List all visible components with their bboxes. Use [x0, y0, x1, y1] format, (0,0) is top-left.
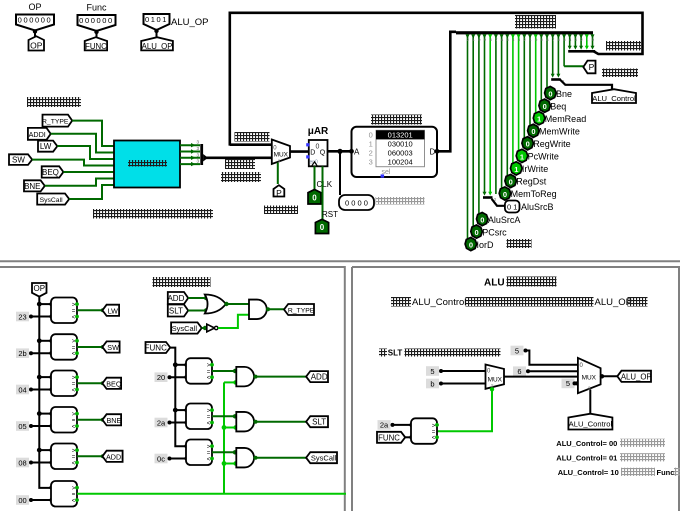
tunnel LW (decode output)	[102, 305, 119, 316]
splitter AluSrcB (2 bits)	[483, 192, 505, 206]
svg-text:0: 0	[475, 228, 479, 237]
wire AND to tunnel R_TYPE	[266, 307, 287, 311]
svg-text:FUNC: FUNC	[378, 433, 400, 442]
svg-text:6: 6	[517, 367, 521, 376]
wire const b to MUX1 input1	[441, 383, 486, 385]
wire CLK to register clock	[314, 166, 316, 189]
probe MemWrite value 0	[528, 124, 580, 137]
probe AluSrcB value 01	[505, 201, 554, 213]
svg-text:μAR: μAR	[308, 126, 329, 137]
FUNC bus wire	[170, 348, 186, 447]
svg-text:0: 0	[316, 143, 320, 150]
mux MUX1 (alu op pre-select)	[486, 365, 505, 390]
svg-text:ALU_Control= 00: ALU_Control= 00	[556, 439, 617, 448]
svg-text:ADD: ADD	[311, 373, 328, 382]
wire SW to box	[32, 160, 114, 166]
comparator FUNC==0c	[186, 440, 214, 466]
constant 2a (right panel)	[378, 420, 395, 430]
tunnel ALU_Control (top right)	[592, 89, 636, 103]
svg-text:2: 2	[369, 149, 373, 158]
tunnel ADD (input)	[167, 292, 188, 304]
svg-text:D: D	[430, 147, 436, 156]
comparator OP==05	[51, 407, 79, 433]
svg-text:LW: LW	[40, 142, 52, 151]
svg-text:=: =	[207, 451, 211, 457]
svg-text:100204: 100204	[388, 158, 413, 167]
svg-text:Bne: Bne	[556, 89, 572, 99]
wire R_TYPE to box	[72, 121, 114, 146]
microinstruction splitter fanout lines (23 bits)	[466, 34, 595, 239]
wire splitter to tunnel P	[564, 65, 583, 67]
tunnel BEQ (decode output)	[102, 378, 121, 389]
svg-text:0: 0	[509, 177, 513, 186]
comparator OP==04	[51, 371, 79, 397]
svg-text:=: =	[72, 418, 76, 424]
bottom-left panel border	[0, 267, 345, 511]
wire NOT to AND gate (bright)	[218, 315, 249, 328]
constant 2a (func)	[155, 418, 172, 428]
note ALU_Control=10	[558, 468, 680, 477]
wire bright branch to AND gate 2	[224, 425, 238, 429]
wire OR to AND gate	[224, 302, 249, 306]
svg-text:Beq: Beq	[550, 101, 566, 111]
svg-text:000000: 000000	[79, 16, 114, 25]
svg-text:IorD: IorD	[477, 240, 495, 250]
svg-text:<: <	[72, 424, 76, 430]
wire FUNC bus corner	[184, 444, 188, 448]
constant 5 (lower)	[562, 379, 579, 389]
svg-text:AluSrcA: AluSrcA	[488, 215, 521, 225]
wire BEQ to box	[63, 171, 114, 173]
svg-text:MUX: MUX	[274, 151, 289, 158]
svg-text:0 0 0 0: 0 0 0 0	[345, 199, 368, 208]
svg-text:0c: 0c	[157, 454, 165, 463]
svg-text:ALU_OP: ALU_OP	[595, 297, 633, 308]
svg-text:00: 00	[18, 496, 26, 505]
wire const 6 to MUX2 input1	[528, 370, 578, 372]
tunnel ALU_Control (bottom right)	[568, 414, 612, 430]
svg-text:SysCall: SysCall	[311, 454, 337, 463]
entry-address splitter spine	[200, 144, 203, 165]
comparator OP==2b	[51, 334, 79, 360]
comparator OP==00	[51, 481, 79, 507]
svg-text:ALU: ALU	[484, 277, 505, 288]
tunnel SLT (input)	[168, 305, 188, 317]
and-gate output SLT	[236, 412, 254, 432]
wire OP bus tap to comparator 3	[37, 375, 54, 380]
constant 5 (mux1)	[426, 366, 443, 376]
svg-text:R_TYPE: R_TYPE	[288, 308, 315, 315]
probe Bne value 0	[545, 87, 572, 100]
wire pin OP to tunnel OP	[34, 31, 36, 39]
svg-text:LW: LW	[108, 306, 118, 315]
svg-text:<: <	[72, 352, 76, 358]
note: default add except SLT	[379, 348, 501, 357]
and-gate output ADD	[236, 367, 254, 387]
svg-text:5: 5	[430, 367, 434, 376]
svg-text:SLT: SLT	[169, 307, 183, 316]
svg-text:<: <	[72, 315, 76, 321]
wire ADD to OR gate	[188, 296, 208, 300]
tunnel ALU_OP (north)	[141, 37, 173, 51]
tunnel LW	[38, 141, 57, 152]
svg-text:0: 0	[526, 140, 530, 149]
wire pin Func to tunnel FUNC	[96, 31, 98, 39]
wire SysCall to box	[69, 185, 114, 199]
tunnel FUNC (decode panel)	[145, 342, 171, 353]
svg-text:000000: 000000	[18, 16, 53, 25]
label RST	[322, 210, 338, 219]
svg-text:Func: Func	[86, 3, 107, 13]
label: panduan luoji (judge logic) left	[264, 206, 298, 215]
and-gate output SysCall	[236, 448, 254, 468]
svg-text:=: =	[72, 492, 76, 498]
tunnel ADDI (decode output)	[102, 451, 123, 462]
svg-text:BNE: BNE	[106, 416, 121, 425]
wire bright branch to AND gate 1	[224, 380, 238, 384]
comparator FUNC==20	[186, 358, 214, 384]
svg-text:SLT: SLT	[312, 418, 326, 427]
wire comparator to AND gate 1	[212, 369, 237, 373]
wire const 2a to comparator	[393, 423, 414, 427]
svg-text:A: A	[354, 147, 360, 156]
probe RegWrite value 0	[522, 137, 571, 150]
svg-text:IrWrite: IrWrite	[522, 164, 548, 174]
svg-text:<: <	[207, 376, 211, 382]
svg-text:BEQ: BEQ	[106, 379, 122, 388]
tunnel FUNC (right panel)	[377, 432, 405, 443]
tunnel OP (north)	[29, 36, 45, 50]
wire comparator to AND gate 3	[212, 450, 237, 454]
svg-text:b: b	[430, 379, 434, 388]
svg-text:BEQ: BEQ	[42, 168, 59, 177]
svg-text:OP: OP	[33, 284, 45, 293]
tunnel BEQ	[42, 166, 64, 177]
svg-text:PcWrite: PcWrite	[528, 152, 559, 162]
note ALU_Control=00	[556, 439, 665, 448]
svg-text:05: 05	[18, 422, 26, 431]
svg-text:<: <	[207, 457, 211, 463]
svg-text:OP: OP	[30, 40, 43, 50]
feedback bus wire loop (top)	[230, 13, 643, 146]
svg-text:04: 04	[18, 385, 26, 394]
svg-text:5: 5	[566, 379, 570, 388]
wire MUX select to tunnel P	[277, 163, 279, 185]
or-gate U1 (ADD|SLT)	[205, 295, 226, 314]
wire comparator to tunnel BEQ	[77, 381, 105, 385]
constant 00	[16, 495, 33, 505]
constant 2b	[16, 348, 33, 358]
svg-text:>: >	[207, 409, 211, 415]
svg-text:RegWrite: RegWrite	[533, 139, 570, 149]
label: rukou dizhi (entry address)	[221, 172, 261, 182]
svg-text:1: 1	[514, 165, 518, 174]
input pin ALU_OP (4-bit value 0101)	[144, 14, 209, 33]
wire AND to tunnel SysCall	[254, 456, 309, 460]
constant 23	[16, 312, 33, 322]
svg-text:=: =	[72, 382, 76, 388]
constant 08	[16, 458, 33, 468]
svg-text:>: >	[72, 412, 76, 418]
svg-text:SLT: SLT	[388, 348, 403, 357]
subtitle line	[391, 297, 648, 308]
wire AND to tunnel ADD	[254, 375, 309, 379]
wire constant 00 to comparator	[31, 498, 54, 502]
svg-text:AluSrcB: AluSrcB	[521, 202, 554, 212]
svg-text:ALU_OP: ALU_OP	[621, 372, 652, 381]
splitter ALU_Control (2 bits)	[551, 74, 612, 89]
wire ADDI to box	[51, 134, 114, 153]
tunnel P (judge logic P)	[274, 185, 285, 198]
probe MemRead value 1	[533, 112, 586, 125]
wire loop into MUX input 0	[230, 143, 272, 146]
svg-text:ADDI: ADDI	[106, 452, 123, 461]
svg-text:2a: 2a	[157, 418, 166, 427]
svg-text:0: 0	[312, 193, 317, 202]
tunnel R_TYPE	[42, 115, 72, 127]
svg-text:BNE: BNE	[24, 182, 40, 191]
tunnel BNE (decode output)	[102, 414, 121, 425]
svg-text:ALU_Control: ALU_Control	[569, 420, 613, 429]
wire MUX2 select to ALU_Control	[589, 390, 591, 414]
svg-text:MemToReg: MemToReg	[511, 189, 557, 199]
svg-text:<: <	[207, 421, 211, 427]
probe: current microinstruction address (0000)	[339, 195, 374, 210]
svg-text:0: 0	[503, 190, 507, 199]
wire constant 2b to comparator	[31, 351, 54, 355]
svg-text:P: P	[589, 62, 595, 72]
wire constant 04 to comparator	[31, 387, 54, 391]
svg-text:0: 0	[480, 216, 484, 225]
svg-text:08: 08	[18, 458, 26, 467]
wire OP bus corner into comparator 6	[49, 485, 53, 489]
svg-text:Q: Q	[320, 149, 326, 156]
wire FUNC to comparator	[405, 435, 413, 439]
svg-text:1: 1	[369, 139, 373, 148]
wire MUX2 output to tunnel ALU_OP	[600, 374, 618, 378]
svg-text:060003: 060003	[388, 149, 413, 158]
label under box: weicheng address transfer note	[93, 209, 213, 219]
constant 05	[16, 421, 33, 431]
svg-text:<: <	[72, 388, 76, 394]
svg-text:0: 0	[320, 223, 325, 232]
wire uAR Q to ROM A	[328, 149, 352, 154]
wire MUX1 select (bright)	[437, 387, 494, 431]
svg-text:2a: 2a	[380, 421, 389, 430]
svg-text:=: =	[207, 369, 211, 375]
label: control store title	[371, 115, 422, 125]
svg-text:=: =	[72, 455, 76, 461]
tunnel ALU_OP (output)	[617, 371, 651, 382]
svg-text:ALU_Control: ALU_Control	[592, 94, 636, 103]
comparator FUNC==2a (right panel)	[411, 418, 439, 444]
wire OP bus tap to comparator 1	[37, 302, 54, 307]
tunnel P (top right)	[583, 61, 595, 74]
address transfer logic box (dizhi zhuanyi luoji)	[114, 141, 180, 188]
splitter bit index labels	[467, 37, 595, 42]
svg-text:>: >	[72, 486, 76, 492]
svg-text:030010: 030010	[388, 139, 413, 148]
svg-text:=: =	[72, 345, 76, 351]
wire OP bus tap to comparator 4	[37, 411, 54, 416]
tunnel SLT (decode output right)	[306, 416, 328, 427]
wire const 5 to MUX2 input0	[526, 351, 578, 365]
probe AluSrcA value 0	[477, 213, 521, 226]
probe IorD value 0	[465, 238, 494, 251]
probe RegDst value 0	[505, 174, 547, 187]
wire comparator to tunnel SW	[77, 345, 105, 349]
svg-text:D: D	[310, 149, 315, 156]
svg-text:ALU_Control= 10: ALU_Control= 10	[558, 468, 619, 477]
svg-text:SW: SW	[12, 156, 25, 165]
svg-text:ALU_OP: ALU_OP	[142, 42, 173, 51]
wire MUX output to uAR D	[290, 150, 309, 153]
constant 0c (func)	[155, 454, 172, 464]
svg-text:>: >	[72, 376, 76, 382]
wire const 5 to MUX2 input3	[573, 381, 578, 385]
label: weiminglng (micro command)	[507, 239, 532, 248]
svg-text:Func: Func	[657, 468, 675, 477]
label: next-address field (xiazhi ziduan) left	[235, 132, 270, 142]
label title: weizhiling (microinstruction)	[515, 15, 556, 29]
constant 20 (func)	[155, 372, 172, 382]
svg-text:=: =	[207, 415, 211, 421]
tunnel R_TYPE (decode output)	[284, 304, 315, 315]
svg-text:>: >	[432, 423, 436, 429]
tunnel SysCall (decode output right)	[306, 452, 337, 463]
wire OP bus tap to comparator 2	[37, 338, 54, 343]
svg-text:ALU_Control= 01: ALU_Control= 01	[556, 454, 617, 463]
label: dangqian weizhiling dizhi (grey)	[376, 197, 425, 205]
tunnel SW (decode output)	[102, 341, 119, 352]
svg-text:>: >	[72, 339, 76, 345]
wire pin ALU_OP to tunnel ALU_OP	[156, 30, 158, 39]
constant 6	[513, 366, 530, 376]
wire ROM D up to microinstruction splitter	[437, 32, 456, 152]
entry-address splitter fan (4 outputs of box)	[180, 140, 200, 167]
svg-text:PCsrc: PCsrc	[482, 227, 507, 237]
comparator OP==23	[51, 298, 79, 324]
wire BNE to box	[45, 179, 114, 186]
mux MUX2 (alu op select)	[578, 358, 601, 393]
svg-text:0: 0	[543, 102, 547, 111]
separator line full width	[0, 260, 680, 262]
svg-text:CLK: CLK	[317, 180, 333, 189]
wire constant 2a to comparator	[170, 420, 189, 424]
svg-text:SW: SW	[107, 343, 119, 352]
constant b (mux1)	[426, 379, 443, 389]
not-gate U2 (SysCall inverter)	[202, 324, 218, 332]
tunnel BNE	[24, 180, 45, 191]
input pin RST value 0	[315, 219, 328, 233]
wire constant 0c to comparator	[170, 456, 189, 460]
constant 04	[16, 385, 33, 395]
wire AND to tunnel SLT	[254, 420, 309, 424]
svg-text:<: <	[432, 436, 436, 442]
svg-text:MemWrite: MemWrite	[539, 127, 580, 137]
svg-text:0: 0	[469, 241, 473, 250]
svg-text:>: >	[207, 363, 211, 369]
comparator OP==08	[51, 444, 79, 470]
wire FUNC bus tap 2	[173, 408, 189, 413]
svg-text:23: 23	[18, 312, 26, 321]
input pin CLK value 0	[308, 190, 321, 205]
input pin OP (6-bit value 000000)	[16, 2, 54, 34]
svg-text:20: 20	[157, 373, 165, 382]
wire comparator to tunnel LW	[77, 308, 105, 312]
probe PcWrite value 1	[516, 149, 559, 162]
svg-text:0: 0	[369, 130, 373, 139]
svg-text:MemRead: MemRead	[545, 114, 587, 124]
svg-text:R_TYPE: R_TYPE	[42, 119, 69, 126]
probe MemToReg value 0	[499, 187, 556, 200]
bottom-right panel border	[352, 267, 679, 511]
svg-text:<: <	[72, 498, 76, 504]
svg-text:0 1: 0 1	[507, 203, 517, 212]
tunnel OP (south, decode panel)	[32, 283, 47, 297]
wire OP bus tap to comparator 5	[37, 448, 54, 453]
wire comparator to tunnel BNE	[77, 418, 105, 422]
svg-text:2b: 2b	[18, 349, 26, 358]
svg-text:3: 3	[369, 158, 373, 167]
microinstruction splitter spine	[456, 31, 593, 34]
svg-text:1: 1	[537, 115, 541, 124]
wire comparator to tunnel ADDI	[77, 454, 105, 458]
label: panduan luoji (top right)	[602, 69, 638, 78]
svg-text:=: =	[432, 430, 436, 436]
tunnel FUNC (north)	[85, 37, 107, 51]
label: instruction decode signals (zhiling yima xinhao)	[27, 97, 81, 107]
title ALU controller logic	[484, 277, 557, 289]
svg-text:<: <	[72, 461, 76, 467]
svg-text:0: 0	[531, 127, 535, 136]
wire FUNC bus tap 1	[173, 362, 189, 367]
wire OP==00 output (bright, long)	[77, 493, 346, 495]
svg-text:OP: OP	[28, 2, 41, 12]
note ALU_Control=01	[556, 453, 665, 462]
tunnel ADDI	[28, 128, 51, 140]
svg-text:MUX: MUX	[582, 374, 597, 381]
input pin Func (6-bit value 000000)	[78, 3, 116, 35]
svg-text:>: >	[72, 449, 76, 455]
entry-address bus junction	[203, 154, 208, 162]
wire const to MUX1 input0	[441, 370, 486, 372]
constant 5 (top)	[511, 346, 528, 356]
wire junction down to address probe	[339, 151, 341, 195]
mux MUX (next-address select)	[272, 140, 290, 165]
svg-text:FUNC: FUNC	[85, 42, 107, 51]
probe Beq value 0	[539, 99, 566, 112]
wire constant 20 to comparator	[170, 375, 189, 379]
tunnel SW	[9, 154, 32, 165]
label: instruction decode logic title	[153, 277, 211, 287]
ROM control store (kongzhi cunchuqi)	[349, 127, 439, 178]
and-gate U3 (R_TYPE)	[249, 300, 267, 320]
svg-text:013201: 013201	[388, 130, 413, 139]
probe IrWrite value 1	[511, 162, 549, 175]
svg-text:SysCall: SysCall	[172, 324, 198, 333]
bus wire: microprogram entry address to MUX	[206, 157, 272, 160]
wire SLT to OR gate	[188, 308, 208, 312]
wire constant 23 to comparator	[31, 314, 54, 318]
tunnel ADD (decode output right)	[306, 371, 328, 382]
svg-text:ADDI: ADDI	[29, 130, 46, 139]
wire MUX1 output to MUX2	[504, 376, 578, 378]
svg-text:RST: RST	[322, 210, 338, 219]
svg-text:FUNC: FUNC	[145, 344, 167, 353]
svg-text:0101: 0101	[145, 15, 168, 24]
tunnel SysCall	[37, 194, 69, 205]
